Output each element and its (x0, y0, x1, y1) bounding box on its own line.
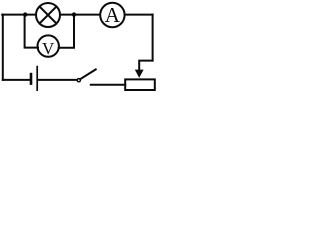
wire lamp to ammeter (61, 14, 100, 16)
wire switch to rheostat (91, 84, 125, 86)
switch S1 pivot (77, 79, 80, 82)
wire top-left segment (2, 14, 36, 16)
wire voltmeter loop left (25, 15, 38, 48)
wire voltmeter loop right (59, 15, 74, 48)
svg-text:A: A (105, 3, 121, 27)
wire ammeter to right corner (126, 14, 153, 16)
rheostat R1 arrowhead (135, 70, 144, 78)
ammeter U1 circle (100, 3, 124, 27)
node junction right (72, 12, 76, 16)
node junction left (23, 12, 27, 16)
svg-text:V: V (42, 39, 55, 58)
wire right vertical (152, 15, 154, 61)
wire left vertical (2, 15, 4, 80)
battery BT1 positive plate (36, 67, 38, 91)
battery BT1 negative plate (30, 74, 33, 84)
rheostat R1 body (125, 79, 155, 90)
wire battery to switch (38, 79, 76, 81)
voltmeter U2 circle (38, 35, 59, 56)
wire left to battery (3, 79, 30, 81)
wire right elbow to arrow stem (139, 61, 152, 71)
switch S1 lever (81, 69, 96, 79)
lamp L1 (36, 3, 60, 27)
